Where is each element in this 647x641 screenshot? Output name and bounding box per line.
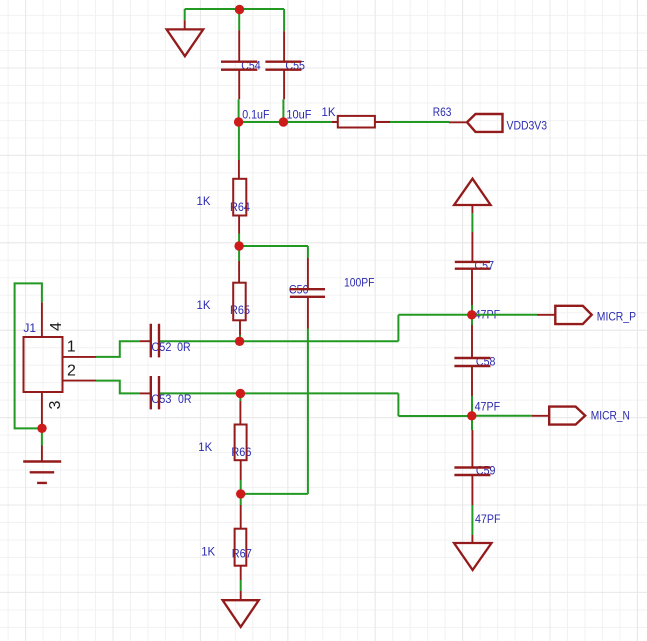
svg-text:R63: R63 [433, 105, 452, 119]
wire [471, 315, 473, 325]
svg-text:2: 2 [67, 362, 76, 379]
resistor R65 [233, 283, 246, 321]
junction [236, 489, 245, 498]
wire [471, 505, 473, 535]
wire [471, 269, 473, 305]
wire [532, 415, 549, 417]
wire [184, 20, 186, 29]
wire [238, 234, 240, 247]
wire [471, 430, 473, 505]
net flag MICR_P [555, 306, 591, 324]
svg-text:100PF: 100PF [344, 275, 375, 289]
wire [238, 99, 240, 122]
junction [279, 117, 288, 126]
resistor R64 [233, 179, 246, 216]
wire [41, 302, 43, 336]
wire [96, 381, 140, 394]
net flag VDD3V3 [467, 114, 503, 132]
wire [239, 245, 308, 247]
wire [241, 493, 308, 495]
wire [471, 213, 473, 232]
ground [223, 600, 259, 627]
wire [471, 535, 473, 543]
svg-text:4: 4 [48, 322, 65, 331]
wire [307, 246, 309, 258]
wire [238, 9, 240, 30]
wire [239, 121, 332, 123]
capacitor C59 [454, 468, 490, 476]
svg-text:1K: 1K [198, 440, 213, 454]
junction [234, 117, 243, 126]
wire [15, 283, 42, 428]
power flag [454, 179, 491, 205]
svg-text:1K: 1K [197, 298, 212, 312]
svg-text:47PF: 47PF [475, 399, 501, 413]
wire [238, 30, 240, 99]
wire [240, 480, 242, 494]
wire [307, 329, 309, 494]
wire [41, 424, 43, 445]
net flag MICR_N [549, 407, 585, 425]
resistor R63 [338, 116, 375, 128]
wire [238, 122, 240, 160]
wire [239, 394, 241, 402]
wire [283, 31, 285, 99]
wire [63, 356, 96, 358]
wire [160, 392, 398, 394]
junction [235, 5, 244, 14]
junction [235, 337, 244, 346]
svg-text:3: 3 [47, 401, 64, 410]
connector J1 [24, 337, 63, 392]
ground [167, 29, 204, 56]
capacitor C57 [455, 262, 490, 269]
capacitor C55 [265, 62, 301, 70]
wire [398, 415, 471, 417]
wire [472, 314, 537, 316]
junction [236, 389, 245, 398]
wire [184, 9, 186, 20]
wire [449, 121, 467, 123]
wire [240, 494, 242, 505]
wire [185, 8, 284, 10]
junction [467, 411, 476, 420]
capacitor C52 [151, 324, 159, 358]
wire [239, 335, 241, 341]
wire [390, 121, 449, 123]
wire [239, 401, 241, 480]
wire [397, 315, 399, 341]
wire [238, 261, 241, 335]
wire [240, 591, 242, 600]
ground [454, 543, 492, 570]
wire [240, 505, 242, 580]
svg-text:10uF: 10uF [286, 108, 311, 122]
svg-text:MICR_N: MICR_N [591, 409, 630, 423]
junction [37, 424, 46, 433]
svg-text:1: 1 [67, 338, 76, 355]
svg-text:J1: J1 [23, 321, 36, 335]
wire [398, 314, 471, 316]
wire [96, 341, 140, 357]
wire [240, 580, 242, 591]
wire [471, 305, 473, 315]
wire [63, 380, 96, 382]
junction [467, 310, 476, 319]
wire [307, 258, 309, 329]
wire [332, 121, 390, 123]
wire [471, 205, 473, 262]
wire [41, 392, 43, 425]
wire [471, 396, 473, 416]
capacitor C53 [151, 376, 159, 409]
wire [140, 392, 151, 394]
wire [471, 325, 473, 396]
wire [160, 340, 398, 342]
svg-text:47PF: 47PF [475, 512, 501, 526]
svg-text:1K: 1K [197, 194, 212, 208]
junction [234, 241, 243, 250]
wire [397, 393, 399, 416]
wire [238, 160, 240, 234]
svg-text:0.1uF: 0.1uF [242, 108, 270, 122]
svg-text:1K: 1K [322, 105, 337, 119]
wire [41, 446, 43, 462]
wire [282, 99, 284, 122]
capacitor C58 [454, 358, 490, 366]
wire [537, 314, 555, 316]
ground [23, 462, 61, 483]
svg-text:MICR_P: MICR_P [597, 310, 636, 324]
capacitor C54 [221, 62, 257, 70]
wire [471, 416, 473, 430]
resistor R67 [235, 529, 247, 566]
capacitor C56 [290, 289, 325, 297]
wire [238, 246, 240, 261]
svg-text:1K: 1K [201, 544, 216, 558]
wire [472, 415, 532, 417]
svg-text:VDD3V3: VDD3V3 [507, 118, 548, 132]
resistor R66 [235, 425, 247, 461]
wire [140, 340, 151, 342]
svg-text:C57: C57 [475, 258, 495, 272]
wire [283, 9, 285, 31]
